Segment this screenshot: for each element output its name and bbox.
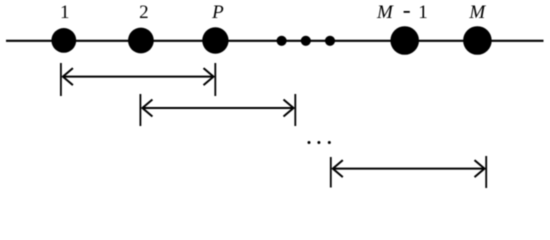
node dots: ellipsis element dot b: [301, 36, 311, 46]
subarray 1 span: right arrowhead: [204, 68, 214, 85]
svg-text:1: 1: [418, 2, 428, 23]
subarray L span: left arrowhead: [333, 160, 343, 177]
svg-text:2: 2: [139, 2, 149, 23]
node dots: ellipsis element dot a: [277, 36, 287, 46]
subarray 1 span: right tick: [214, 63, 216, 96]
subarray L span: right tick: [485, 156, 487, 188]
node M: array element M: [463, 26, 492, 55]
subarray 2 span: right tick: [294, 94, 296, 126]
label M-1: minus sign: [404, 11, 410, 13]
svg-text:P: P: [211, 2, 224, 23]
node dots: ellipsis element dot c: [325, 36, 335, 46]
subarray 1 span: double arrow line: [63, 76, 213, 78]
svg-text:M: M: [376, 2, 394, 23]
ellipsis between subarray spans: dot 2: [317, 141, 320, 144]
subarray L span: double arrow line: [333, 168, 484, 170]
node M-1: array element M-1: [390, 26, 419, 55]
subarray L span: left tick: [330, 157, 332, 188]
wire: main array axis line: [6, 40, 544, 42]
node 1: array element 1: [51, 28, 76, 53]
subarray 2 span: left arrowhead: [142, 100, 152, 117]
subarray 1 span: left tick: [60, 63, 62, 96]
ellipsis between subarray spans: dot 1: [308, 141, 311, 144]
ellipsis between subarray spans: dot 3: [328, 141, 331, 144]
node 2: array element 2: [128, 28, 154, 54]
subarray 1 span: left arrowhead: [63, 68, 73, 85]
subarray 2 span: left tick: [139, 94, 141, 126]
svg-text:M: M: [468, 2, 486, 23]
subarray 2 span: right arrowhead: [284, 100, 294, 117]
subarray L span: right arrowhead: [475, 160, 485, 177]
subarray 2 span: double arrow line: [143, 107, 293, 109]
svg-text:1: 1: [60, 2, 70, 23]
node P: array element P: [202, 27, 228, 53]
